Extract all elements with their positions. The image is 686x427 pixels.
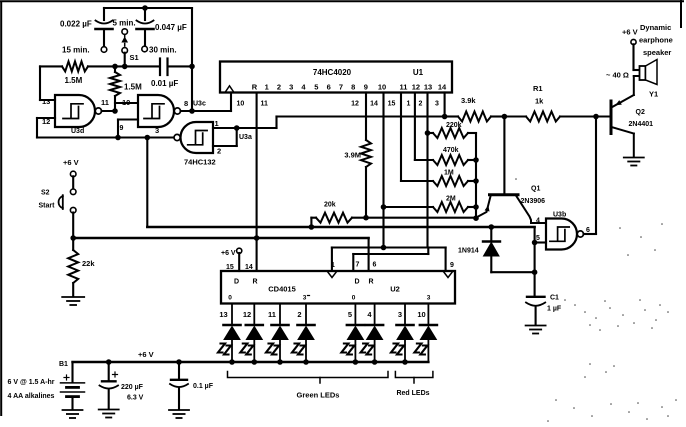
svg-text:3.9k: 3.9k — [461, 96, 476, 105]
svg-text:R: R — [252, 279, 257, 286]
svg-text:C1: C1 — [550, 295, 559, 302]
svg-text:1 µF: 1 µF — [547, 306, 562, 313]
svg-text:Red LEDs: Red LEDs — [396, 390, 429, 397]
svg-text:CD4015: CD4015 — [268, 285, 296, 294]
svg-text:11: 11 — [400, 83, 408, 92]
svg-text:20k: 20k — [324, 202, 336, 209]
svg-text:1: 1 — [265, 83, 269, 92]
svg-text:15: 15 — [388, 101, 396, 108]
svg-text:+6 V: +6 V — [622, 28, 638, 37]
svg-text:13: 13 — [424, 83, 432, 92]
svg-text:3: 3 — [155, 126, 159, 135]
svg-text:12: 12 — [42, 117, 50, 126]
svg-text:9: 9 — [450, 262, 454, 269]
svg-text:3: 3 — [303, 295, 307, 302]
svg-text:1: 1 — [215, 119, 219, 128]
svg-text:R: R — [368, 279, 373, 286]
svg-text:13: 13 — [219, 310, 227, 319]
svg-text:220 µF: 220 µF — [121, 384, 144, 391]
svg-text:1.5M: 1.5M — [65, 76, 83, 85]
svg-text:1.5M: 1.5M — [124, 83, 142, 92]
svg-text:12: 12 — [243, 310, 251, 319]
svg-text:U3d: U3d — [71, 128, 84, 135]
svg-text:2: 2 — [217, 147, 221, 156]
svg-text:74HC4020: 74HC4020 — [313, 68, 352, 77]
svg-text:earphone: earphone — [639, 36, 673, 45]
svg-text:12: 12 — [412, 83, 420, 92]
svg-text:1N914: 1N914 — [458, 248, 479, 255]
svg-text:S1: S1 — [130, 53, 139, 62]
svg-text:1: 1 — [407, 101, 411, 108]
svg-text:5: 5 — [314, 83, 318, 92]
svg-text:6: 6 — [327, 83, 331, 92]
svg-text:0: 0 — [228, 295, 232, 302]
svg-text:470k: 470k — [443, 147, 459, 154]
svg-text:1M: 1M — [444, 170, 454, 177]
svg-text:9: 9 — [120, 125, 124, 132]
svg-text:~ 40 Ω: ~ 40 Ω — [606, 71, 629, 80]
svg-text:74HC132: 74HC132 — [184, 158, 216, 167]
svg-text:R: R — [252, 83, 258, 92]
svg-text:+6 V: +6 V — [63, 158, 79, 167]
svg-text:4 AA alkalines: 4 AA alkalines — [8, 393, 55, 400]
svg-text:B1: B1 — [59, 361, 68, 368]
svg-text:2: 2 — [297, 310, 301, 319]
svg-text:Dynamic: Dynamic — [640, 23, 671, 32]
svg-text:S2: S2 — [41, 190, 50, 197]
svg-text:220k: 220k — [446, 122, 462, 129]
svg-text:4: 4 — [536, 218, 540, 225]
svg-text:D: D — [234, 279, 239, 286]
svg-text:11: 11 — [101, 98, 109, 107]
svg-text:Q2: Q2 — [636, 109, 645, 116]
svg-text:Start: Start — [39, 203, 56, 210]
svg-text:3.9M: 3.9M — [344, 151, 361, 160]
svg-text:12: 12 — [351, 101, 359, 108]
svg-text:1: 1 — [331, 262, 335, 269]
svg-text:14: 14 — [245, 264, 253, 271]
svg-text:2: 2 — [419, 101, 423, 108]
svg-text:D: D — [354, 279, 359, 286]
svg-text:U3c: U3c — [193, 101, 206, 108]
svg-text:0.022 µF: 0.022 µF — [60, 20, 92, 29]
svg-text:2N4401: 2N4401 — [629, 121, 654, 128]
svg-text:6.3 V: 6.3 V — [127, 395, 144, 402]
svg-text:3: 3 — [435, 101, 439, 108]
svg-text:R1: R1 — [533, 84, 543, 93]
svg-text:10: 10 — [417, 310, 425, 319]
svg-text:6 V @ 1.5 A-hr: 6 V @ 1.5 A-hr — [8, 379, 55, 386]
svg-text:6: 6 — [586, 227, 590, 234]
svg-text:0.047 µF: 0.047 µF — [155, 23, 187, 32]
svg-text:0.1 µF: 0.1 µF — [193, 383, 214, 390]
svg-text:10: 10 — [378, 83, 386, 92]
svg-text:15 min.: 15 min. — [62, 46, 90, 55]
svg-text:+6 V: +6 V — [221, 250, 236, 257]
svg-text:7: 7 — [356, 262, 360, 269]
svg-text:3: 3 — [289, 83, 293, 92]
svg-text:5 min.: 5 min. — [113, 19, 136, 28]
svg-text:14: 14 — [438, 83, 447, 92]
svg-text:0: 0 — [352, 295, 356, 302]
svg-text:14: 14 — [370, 101, 378, 108]
svg-text:30 min.: 30 min. — [149, 46, 177, 55]
svg-text:3: 3 — [398, 310, 402, 319]
svg-text:15: 15 — [226, 264, 234, 271]
svg-text:3: 3 — [427, 295, 431, 302]
svg-text:2M: 2M — [446, 196, 456, 203]
svg-text:8: 8 — [351, 83, 355, 92]
svg-text:U2: U2 — [390, 285, 400, 294]
svg-text:5: 5 — [348, 310, 352, 319]
svg-text:9: 9 — [364, 83, 368, 92]
svg-text:11: 11 — [268, 310, 276, 319]
svg-text:2: 2 — [277, 83, 281, 92]
svg-text:11: 11 — [261, 101, 269, 108]
svg-text:2N3906: 2N3906 — [521, 198, 546, 205]
svg-text:Q1: Q1 — [531, 186, 540, 193]
svg-text:10: 10 — [237, 101, 245, 108]
svg-text:0.01 µF: 0.01 µF — [151, 79, 178, 88]
svg-text:8: 8 — [184, 99, 188, 108]
svg-text:4: 4 — [367, 310, 372, 319]
svg-text:6: 6 — [373, 262, 377, 269]
svg-text:Green LEDs: Green LEDs — [297, 391, 340, 400]
svg-text:Y1: Y1 — [649, 90, 658, 99]
svg-text:7: 7 — [339, 83, 343, 92]
svg-text:speaker: speaker — [643, 48, 671, 57]
svg-text:+6 V: +6 V — [138, 350, 154, 359]
svg-text:13: 13 — [42, 97, 50, 106]
svg-text:22k: 22k — [82, 259, 95, 268]
svg-text:U1: U1 — [413, 68, 424, 77]
svg-text:1k: 1k — [535, 97, 544, 106]
svg-text:U3a: U3a — [239, 134, 252, 141]
svg-text:U3b: U3b — [553, 212, 566, 219]
